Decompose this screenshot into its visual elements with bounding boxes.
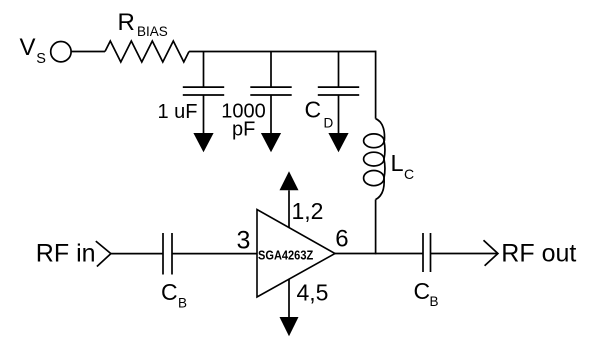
- svg-text:1,2: 1,2: [292, 198, 324, 224]
- svg-text:C: C: [305, 97, 322, 123]
- svg-text:4,5: 4,5: [297, 280, 329, 306]
- svg-text:B: B: [430, 294, 439, 309]
- svg-text:1 uF: 1 uF: [158, 101, 198, 123]
- svg-text:V: V: [20, 34, 36, 61]
- svg-text:BIAS: BIAS: [137, 24, 168, 39]
- svg-text:SGA4263Z: SGA4263Z: [258, 248, 314, 263]
- svg-text:3: 3: [237, 227, 251, 255]
- svg-text:B: B: [178, 296, 187, 311]
- svg-text:pF: pF: [232, 119, 255, 141]
- svg-text:RF out: RF out: [501, 240, 576, 268]
- svg-text:S: S: [36, 51, 46, 67]
- svg-text:C: C: [404, 166, 414, 182]
- svg-text:D: D: [324, 116, 334, 131]
- svg-text:RF in: RF in: [36, 240, 96, 268]
- svg-text:6: 6: [335, 226, 348, 253]
- svg-text:C: C: [161, 279, 178, 305]
- svg-text:L: L: [391, 150, 404, 176]
- svg-text:R: R: [118, 9, 135, 36]
- svg-text:C: C: [414, 278, 431, 304]
